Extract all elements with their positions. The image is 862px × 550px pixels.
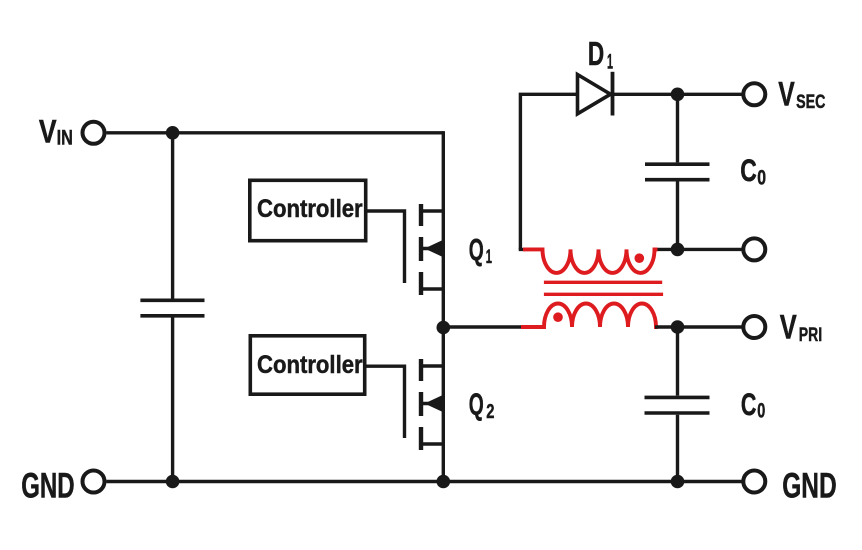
wire VIN rail top xyxy=(107,131,444,134)
svg-text:D: D xyxy=(588,35,604,73)
svg-text:V: V xyxy=(778,76,795,114)
svg-text:1: 1 xyxy=(607,51,613,74)
svg-text:SEC: SEC xyxy=(796,91,825,113)
terminal GND right xyxy=(743,471,765,493)
wire Co1 bottom lead xyxy=(676,182,679,250)
svg-text:2: 2 xyxy=(486,401,494,423)
wire primary right to VPRI xyxy=(655,325,742,328)
svg-text:0: 0 xyxy=(757,167,766,190)
wire Cin bottom lead xyxy=(171,318,174,482)
svg-text:Q: Q xyxy=(469,232,484,267)
wire Co1 top lead xyxy=(676,94,679,162)
capacitor Co2 xyxy=(645,397,710,413)
wire gate Q2 xyxy=(367,366,405,438)
wire Cin top lead xyxy=(171,133,174,299)
transformer T1 primary winding xyxy=(521,304,658,328)
polarity dot secondary xyxy=(635,253,645,263)
svg-text:GND: GND xyxy=(782,467,837,506)
transistor Q2 xyxy=(421,359,443,450)
terminal VSEC xyxy=(743,83,765,105)
wire diode branch vertical xyxy=(520,94,576,249)
transformer T1 secondary winding xyxy=(523,249,658,273)
capacitor Co1 xyxy=(645,164,710,180)
controller U1 box xyxy=(250,180,366,240)
svg-text:0: 0 xyxy=(757,399,765,422)
wire mid node to primary xyxy=(443,325,524,328)
terminal VPRI xyxy=(743,316,765,338)
wire GND rail bottom xyxy=(107,480,742,483)
wire Q1 drain-source vertical xyxy=(442,131,445,327)
svg-text:1: 1 xyxy=(486,246,492,268)
junction Q2 source / GND xyxy=(437,475,451,489)
wire secondary left stub xyxy=(520,248,526,250)
transformer T1 core xyxy=(544,282,663,294)
diode D1 xyxy=(578,72,613,116)
svg-text:V: V xyxy=(780,309,797,347)
junction D1/Co1 xyxy=(671,88,685,102)
junction VIN/Cin xyxy=(166,126,180,140)
wire Co2 bottom lead xyxy=(676,415,679,482)
wire D1 cathode to VSEC xyxy=(613,93,742,96)
svg-text:GND: GND xyxy=(21,467,74,506)
terminal VIN xyxy=(83,122,105,144)
junction GND/Cin xyxy=(166,475,180,489)
svg-text:Controller: Controller xyxy=(257,196,363,223)
svg-text:V: V xyxy=(39,112,57,149)
svg-text:C: C xyxy=(741,386,757,422)
terminal secondary return xyxy=(743,238,765,260)
svg-text:PRI: PRI xyxy=(799,324,822,346)
wire secondary right to terminal xyxy=(655,248,742,251)
junction mid node xyxy=(437,321,451,335)
polarity dot primary xyxy=(553,312,563,322)
wire Q2 drain-source vertical xyxy=(442,328,445,482)
junction secondary/Co1 xyxy=(671,243,685,257)
svg-text:C: C xyxy=(740,152,757,188)
svg-text:Controller: Controller xyxy=(257,352,363,379)
capacitor Cin xyxy=(140,300,204,316)
wire gate Q1 xyxy=(368,211,405,283)
svg-text:Q: Q xyxy=(469,386,484,421)
junction GND/Co2 xyxy=(671,475,685,489)
transistor Q1 xyxy=(421,204,443,295)
wire Co2 top lead xyxy=(676,327,679,396)
svg-text:IN: IN xyxy=(57,126,73,150)
controller U2 box xyxy=(250,336,364,394)
terminal GND left xyxy=(83,471,105,493)
junction primary/Co2 xyxy=(671,320,685,334)
